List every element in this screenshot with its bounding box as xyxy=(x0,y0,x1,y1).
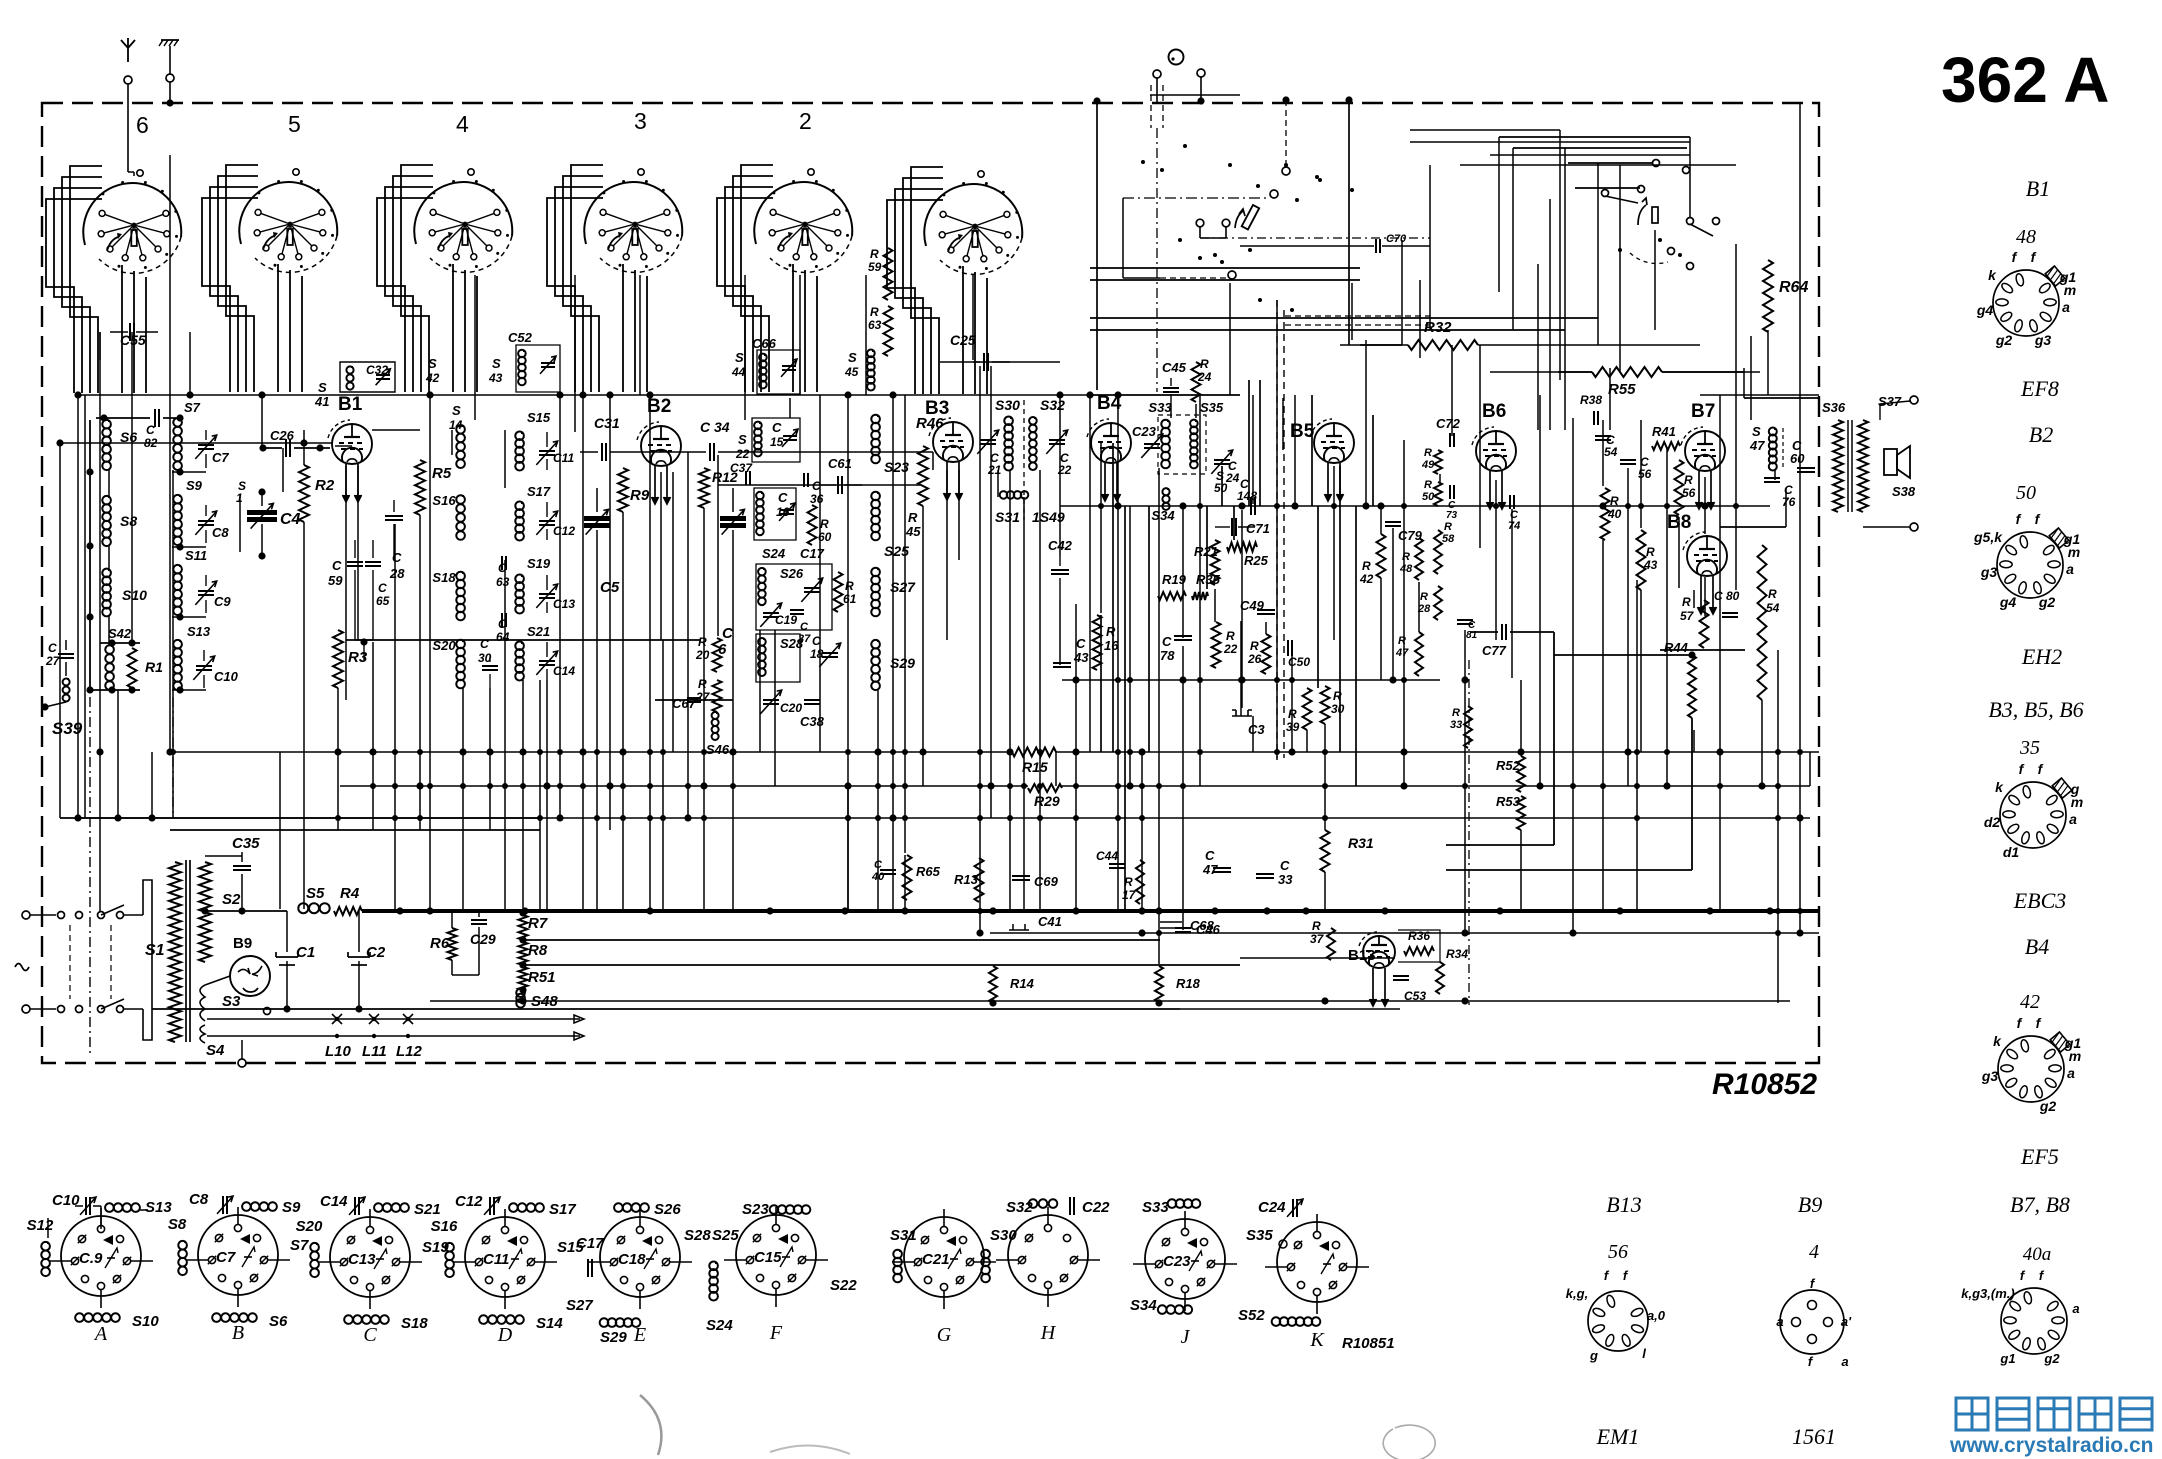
svg-text:42: 42 xyxy=(425,371,440,385)
socket 48 xyxy=(1993,270,2059,336)
rotary switch wafer xyxy=(924,184,1022,246)
trimmer C32 xyxy=(376,374,390,376)
svg-text:C77: C77 xyxy=(1482,643,1507,658)
svg-text:EM1: EM1 xyxy=(1596,1424,1640,1449)
svg-text:74: 74 xyxy=(1508,520,1520,532)
svg-text:m: m xyxy=(2064,282,2076,298)
resistor R43 xyxy=(1637,530,1646,590)
svg-text:S24: S24 xyxy=(706,1317,733,1334)
svg-text:S35: S35 xyxy=(1200,400,1224,415)
svg-text:B13: B13 xyxy=(1348,947,1376,964)
svg-text:g5,k: g5,k xyxy=(1973,529,2003,545)
svg-text:C: C xyxy=(48,641,57,655)
detail circle D externals xyxy=(445,1243,454,1252)
svg-text:S: S xyxy=(318,380,327,395)
svg-text:EF5: EF5 xyxy=(2020,1144,2059,1169)
tube B1 xyxy=(332,424,372,464)
svg-text:R14: R14 xyxy=(1010,976,1035,991)
wire nest xyxy=(547,198,603,392)
resistor R34 xyxy=(1436,962,1444,994)
svg-text:S: S xyxy=(492,356,501,371)
tube B8 xyxy=(1687,536,1727,576)
svg-text:S34: S34 xyxy=(1151,508,1175,523)
svg-text:L11: L11 xyxy=(362,1043,387,1060)
coil S11 xyxy=(173,565,182,574)
svg-text:56: 56 xyxy=(1682,486,1696,500)
resistor R54 xyxy=(1758,545,1767,700)
svg-text:R29: R29 xyxy=(1034,793,1060,809)
detail circle A xyxy=(61,1216,141,1296)
wire bus horizontals xyxy=(78,394,1240,396)
svg-text:C52: C52 xyxy=(508,330,533,345)
rotary switch wafer 2 xyxy=(754,182,852,244)
svg-text:48: 48 xyxy=(2016,226,2036,248)
svg-text:S17: S17 xyxy=(549,1201,576,1218)
switch 8 xyxy=(1652,207,1658,223)
resistor R37 xyxy=(1327,928,1335,960)
svg-text:C55: C55 xyxy=(120,332,146,348)
svg-text:1561: 1561 xyxy=(1792,1424,1836,1449)
frame exit circle xyxy=(238,1059,246,1067)
svg-text:44: 44 xyxy=(731,365,746,379)
svg-text:S42: S42 xyxy=(108,626,132,641)
svg-text:C38: C38 xyxy=(800,714,825,729)
svg-text:C: C xyxy=(1076,636,1086,651)
svg-text:R5: R5 xyxy=(432,465,452,482)
svg-text:R: R xyxy=(1106,624,1116,639)
resistor R20 xyxy=(713,638,722,672)
svg-text:26: 26 xyxy=(1247,652,1262,666)
svg-text:C72: C72 xyxy=(1436,416,1461,431)
svg-text:S33: S33 xyxy=(1148,400,1172,415)
svg-text:S26: S26 xyxy=(654,1201,681,1218)
svg-text:C7: C7 xyxy=(212,450,229,465)
svg-text:C70: C70 xyxy=(1386,233,1407,245)
coil S26 group xyxy=(758,568,766,576)
svg-text:R13: R13 xyxy=(954,872,979,887)
svg-text:R: R xyxy=(908,510,918,525)
svg-text:R21: R21 xyxy=(1194,544,1218,559)
resistor R49 xyxy=(1434,450,1442,474)
svg-text:R51: R51 xyxy=(528,969,556,986)
svg-text:R: R xyxy=(1226,629,1235,643)
svg-text:S27: S27 xyxy=(566,1297,593,1314)
svg-text:R10851: R10851 xyxy=(1342,1335,1395,1352)
svg-text:S28: S28 xyxy=(684,1227,711,1244)
svg-text:C17: C17 xyxy=(576,1235,604,1252)
svg-text:S13: S13 xyxy=(145,1199,172,1216)
heater line L10 L11 L12 xyxy=(207,1018,520,1020)
svg-text:a: a xyxy=(1776,1314,1783,1329)
trimmer C7 xyxy=(205,430,207,440)
svg-text:S34: S34 xyxy=(1130,1297,1157,1314)
svg-text:50: 50 xyxy=(2016,482,2036,504)
svg-text:C44: C44 xyxy=(1096,849,1118,863)
svg-text:R6: R6 xyxy=(430,935,450,952)
wire nest xyxy=(887,200,943,394)
rotary switch wafer 5 xyxy=(239,182,337,244)
coil S8 xyxy=(102,496,111,505)
wire nest xyxy=(717,198,773,392)
svg-text:C: C xyxy=(146,423,155,437)
svg-text:B1: B1 xyxy=(2026,176,2050,201)
svg-text:C: C xyxy=(800,621,809,633)
output terminal xyxy=(1910,523,1918,531)
resistor R9 xyxy=(618,468,628,512)
coil S9 xyxy=(173,495,182,504)
svg-text:S23: S23 xyxy=(742,1201,769,1218)
tube B2 xyxy=(641,426,681,466)
svg-text:a: a xyxy=(2072,1301,2079,1316)
mains switch xyxy=(58,912,65,919)
svg-text:22: 22 xyxy=(1223,642,1238,656)
svg-text:24: 24 xyxy=(1197,370,1212,384)
svg-text:C69: C69 xyxy=(1034,874,1059,889)
detail circle B xyxy=(198,1215,278,1295)
svg-text:54: 54 xyxy=(1604,445,1618,459)
transformer winding S4 xyxy=(200,1025,205,1043)
svg-text:R15: R15 xyxy=(1022,759,1048,775)
tube B3 xyxy=(933,422,973,462)
svg-text:R36: R36 xyxy=(1408,929,1430,943)
svg-text:a: a xyxy=(2067,1065,2075,1081)
detail circle E xyxy=(600,1217,680,1297)
svg-text:3: 3 xyxy=(634,108,647,134)
capacitor C70 xyxy=(1375,239,1377,253)
svg-text:R: R xyxy=(1250,639,1259,653)
coil S20 xyxy=(456,640,465,649)
svg-text:61: 61 xyxy=(843,592,857,606)
wire nest xyxy=(377,198,433,392)
svg-text:C24: C24 xyxy=(1258,1199,1286,1216)
resistor R26 xyxy=(1262,634,1271,674)
svg-text:B13: B13 xyxy=(1606,1192,1641,1217)
svg-text:C9: C9 xyxy=(214,594,231,609)
svg-text:S2: S2 xyxy=(222,891,241,908)
svg-text:56: 56 xyxy=(1608,1241,1628,1263)
resistor R17 xyxy=(1136,860,1144,904)
transformer S1 xyxy=(169,862,181,1042)
detail circle A externals xyxy=(41,1242,50,1251)
svg-text:45: 45 xyxy=(844,365,859,379)
svg-text:R: R xyxy=(820,517,829,531)
svg-text:R: R xyxy=(1402,551,1410,563)
trimmer C22 xyxy=(1049,439,1065,441)
svg-text:B6: B6 xyxy=(1482,401,1506,422)
trimmer C10 xyxy=(203,650,205,661)
svg-text:R: R xyxy=(1682,595,1691,609)
svg-text:R: R xyxy=(1452,707,1460,719)
svg-text:C 34: C 34 xyxy=(700,419,730,435)
svg-text:22: 22 xyxy=(735,447,750,461)
wire antenna to switch xyxy=(128,171,134,173)
svg-text:S1: S1 xyxy=(145,942,165,959)
svg-text:47: 47 xyxy=(1202,862,1218,877)
svg-text:47: 47 xyxy=(1395,647,1409,659)
coil S16 xyxy=(456,495,465,504)
svg-text:m: m xyxy=(2068,544,2080,560)
resistor R30 xyxy=(1321,686,1330,724)
svg-text:R9: R9 xyxy=(630,487,650,504)
svg-text:R: R xyxy=(870,247,879,261)
svg-text:C68: C68 xyxy=(1190,918,1215,933)
capacitor C80 xyxy=(1722,612,1738,614)
svg-text:C8: C8 xyxy=(189,1191,209,1208)
svg-text:C11: C11 xyxy=(553,451,574,465)
svg-text:S36: S36 xyxy=(1822,400,1846,415)
svg-text:40a: 40a xyxy=(2023,1244,2052,1265)
svg-text:C13: C13 xyxy=(348,1251,376,1268)
capacitor C77 xyxy=(1470,631,1498,633)
wire bus horizontal partial xyxy=(1090,394,1240,396)
svg-text:C.9: C.9 xyxy=(79,1250,103,1267)
svg-text:C45: C45 xyxy=(1162,360,1187,375)
svg-text:C: C xyxy=(378,581,387,595)
detail circle D xyxy=(465,1217,545,1297)
detail circle C externals xyxy=(310,1243,319,1252)
coil S27 xyxy=(871,568,880,577)
svg-text:g2: g2 xyxy=(2039,1098,2057,1114)
svg-text:A: A xyxy=(93,1323,108,1345)
svg-text:S21: S21 xyxy=(414,1201,441,1218)
svg-text:R65: R65 xyxy=(916,864,941,879)
coil S42 xyxy=(105,645,114,654)
svg-text:C: C xyxy=(778,490,788,505)
svg-text:B3, B5, B6: B3, B5, B6 xyxy=(1988,697,2083,722)
svg-text:S3: S3 xyxy=(222,993,241,1010)
svg-text:B: B xyxy=(232,1322,244,1344)
svg-text:S24: S24 xyxy=(762,546,786,561)
svg-text:16: 16 xyxy=(1104,638,1119,653)
coil S18 xyxy=(456,572,465,581)
resistor R65 xyxy=(903,855,912,900)
svg-text:C35: C35 xyxy=(232,835,260,852)
svg-text:K: K xyxy=(1309,1329,1325,1351)
resistor R63 xyxy=(884,306,893,356)
trimmer C12 xyxy=(546,502,548,517)
svg-text:R: R xyxy=(1424,479,1432,491)
svg-text:www.crystalradio.cn: www.crystalradio.cn xyxy=(1949,1434,2153,1457)
junction dots xyxy=(74,391,81,398)
tube B6 xyxy=(1476,431,1516,471)
resistor R14 xyxy=(989,966,997,1003)
svg-text:R64: R64 xyxy=(1779,279,1808,296)
detail circle F xyxy=(736,1215,816,1295)
wire verticals xyxy=(59,443,61,818)
svg-text:18: 18 xyxy=(810,647,824,661)
svg-text:g4: g4 xyxy=(1999,594,2017,610)
svg-text:H: H xyxy=(1040,1322,1057,1344)
svg-text:78: 78 xyxy=(1160,648,1175,663)
svg-text:d1: d1 xyxy=(2003,844,2020,860)
svg-text:S7: S7 xyxy=(290,1237,309,1254)
svg-text:S12: S12 xyxy=(27,1217,54,1234)
B+ bus xyxy=(362,909,1819,913)
svg-text:C8: C8 xyxy=(212,525,229,540)
coil S46tail xyxy=(712,712,719,719)
wire nest xyxy=(46,199,102,393)
coil S6 xyxy=(102,420,111,429)
svg-text:R4: R4 xyxy=(340,885,360,902)
coil S14 xyxy=(456,425,465,434)
trimmer C14 xyxy=(546,642,548,657)
socket 1561 xyxy=(1780,1290,1844,1354)
resistor R64 xyxy=(1763,260,1773,332)
svg-text:63: 63 xyxy=(496,575,510,589)
detail circle G xyxy=(904,1217,984,1297)
svg-text:C22: C22 xyxy=(1082,1199,1110,1216)
svg-text:S52: S52 xyxy=(1238,1307,1265,1324)
resistor R13 xyxy=(975,858,984,902)
capacitor C46 xyxy=(1175,927,1191,929)
resistor R41 xyxy=(1652,442,1680,450)
coil S19 xyxy=(515,575,524,584)
svg-text:R: R xyxy=(1684,473,1693,487)
svg-text:S19: S19 xyxy=(527,556,551,571)
svg-text:R41: R41 xyxy=(1652,424,1676,439)
svg-text:S: S xyxy=(1752,424,1761,439)
svg-text:R3: R3 xyxy=(348,649,368,666)
capacitor C54 xyxy=(1595,435,1611,437)
svg-text:F: F xyxy=(769,1322,783,1344)
coil S34 xyxy=(1162,488,1169,495)
trimmer C24b xyxy=(1214,459,1230,461)
svg-text:R52: R52 xyxy=(1496,758,1521,773)
svg-text:R: R xyxy=(1200,357,1209,371)
auto junction dots xyxy=(335,749,341,755)
svg-text:EH2: EH2 xyxy=(2021,644,2062,669)
dashed coupling lines xyxy=(1153,70,1161,78)
svg-text:C: C xyxy=(1714,589,1723,603)
svg-text:40: 40 xyxy=(1607,507,1622,521)
svg-text:k: k xyxy=(1995,779,2004,795)
svg-text:C13: C13 xyxy=(553,597,575,611)
svg-text:C10: C10 xyxy=(214,669,239,684)
resistor R25 xyxy=(1227,543,1257,552)
socket 50 xyxy=(1997,532,2063,598)
trimmer C8 xyxy=(205,505,207,516)
svg-text:20: 20 xyxy=(695,648,710,662)
svg-text:D: D xyxy=(497,1324,513,1346)
svg-text:76: 76 xyxy=(1782,495,1796,509)
resistor R60 xyxy=(808,505,817,545)
svg-text:24: 24 xyxy=(1225,471,1240,485)
svg-text:a,0: a,0 xyxy=(1647,1308,1666,1323)
svg-text:C31: C31 xyxy=(594,415,620,431)
svg-text:15: 15 xyxy=(770,435,784,449)
svg-text:S: S xyxy=(735,350,744,365)
svg-text:R38: R38 xyxy=(1580,393,1602,407)
svg-text:C12: C12 xyxy=(455,1193,483,1210)
svg-text:C66: C66 xyxy=(752,336,777,351)
svg-text:a: a xyxy=(2062,299,2070,315)
extra mid verticals xyxy=(1248,380,1250,506)
svg-text:C15: C15 xyxy=(754,1249,782,1266)
resistor R40 xyxy=(1601,488,1610,540)
svg-text:R25: R25 xyxy=(1244,553,1269,568)
svg-text:C79: C79 xyxy=(1398,528,1423,543)
svg-text:S33: S33 xyxy=(1142,1199,1169,1216)
svg-text:S22: S22 xyxy=(830,1277,857,1294)
svg-text:a: a xyxy=(2066,561,2074,577)
resistor R29 xyxy=(1028,784,1062,792)
svg-text:B1: B1 xyxy=(338,394,363,415)
svg-text:B5: B5 xyxy=(1290,421,1315,442)
svg-text:B2: B2 xyxy=(2029,422,2053,447)
svg-text:C17: C17 xyxy=(800,546,825,561)
wire extra horizontals xyxy=(170,829,540,831)
svg-text:56: 56 xyxy=(1638,467,1652,481)
svg-text:36: 36 xyxy=(810,492,824,506)
svg-text:R: R xyxy=(870,305,879,319)
svg-text:R10852: R10852 xyxy=(1712,1068,1817,1101)
faint stamp xyxy=(640,1395,661,1455)
svg-text:g4: g4 xyxy=(1976,302,1994,318)
svg-text:C23: C23 xyxy=(1163,1253,1191,1270)
svg-text:R: R xyxy=(1398,635,1406,647)
coil S17 xyxy=(515,502,524,511)
svg-text:L12: L12 xyxy=(396,1043,423,1060)
trimmer C20 xyxy=(763,699,779,701)
svg-text:73: 73 xyxy=(1446,510,1458,521)
socket 40a xyxy=(2001,1288,2067,1354)
svg-text:R: R xyxy=(1768,587,1777,601)
svg-text:C11: C11 xyxy=(483,1251,509,1268)
antenna xyxy=(121,38,135,62)
svg-text:S: S xyxy=(848,350,857,365)
resistor R44 xyxy=(1688,655,1696,718)
svg-text:C: C xyxy=(772,420,782,435)
mains plug bracket xyxy=(143,880,152,1040)
svg-text:C1: C1 xyxy=(296,944,315,961)
resistor R3 xyxy=(333,630,343,688)
tube B5 xyxy=(1314,423,1354,463)
switch 7 xyxy=(1196,219,1204,227)
coil S23 xyxy=(871,415,880,424)
resistor R28 xyxy=(1434,586,1442,620)
svg-text:B9: B9 xyxy=(233,935,252,952)
svg-text:C25: C25 xyxy=(950,332,976,348)
coil S32 xyxy=(1029,417,1037,425)
capacitor C82 xyxy=(96,417,150,419)
svg-text:21: 21 xyxy=(987,463,1002,477)
svg-text:48: 48 xyxy=(1399,563,1413,575)
svg-text:k: k xyxy=(1988,267,1997,283)
svg-text:g: g xyxy=(1589,1348,1598,1363)
svg-text:C20: C20 xyxy=(780,701,802,715)
dashed link xyxy=(1023,400,1025,520)
detail circle C xyxy=(330,1217,410,1297)
capacitor C40 xyxy=(880,869,896,871)
svg-text:J: J xyxy=(1181,1326,1191,1348)
resistor R27 xyxy=(713,680,722,712)
svg-text:57: 57 xyxy=(1680,609,1695,623)
capacitor C53 xyxy=(1393,975,1409,977)
svg-text:R: R xyxy=(698,677,707,691)
svg-text:S8: S8 xyxy=(120,513,137,529)
transformer secondary S2 xyxy=(199,862,211,962)
svg-text:EF8: EF8 xyxy=(2020,376,2059,401)
resistor R32 xyxy=(1408,340,1478,350)
svg-text:C: C xyxy=(1280,858,1290,873)
svg-text:S16: S16 xyxy=(431,1218,458,1235)
svg-text:S18: S18 xyxy=(401,1315,428,1332)
svg-text:R55: R55 xyxy=(1608,381,1636,398)
svg-text:C: C xyxy=(722,625,734,642)
svg-text:S: S xyxy=(738,432,747,447)
dash risers xyxy=(89,697,91,1055)
trimmer C21 xyxy=(980,439,996,441)
